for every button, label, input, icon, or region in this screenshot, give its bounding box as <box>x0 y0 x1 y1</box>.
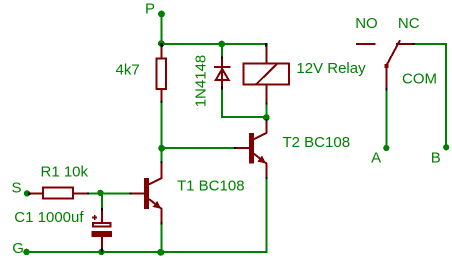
svg-text:G: G <box>12 240 24 257</box>
svg-text:B: B <box>431 150 441 167</box>
svg-text:A: A <box>371 150 381 167</box>
svg-text:1N4148: 1N4148 <box>193 55 210 108</box>
svg-text:R1 10k: R1 10k <box>41 163 89 180</box>
svg-text:12V Relay: 12V Relay <box>296 60 366 77</box>
svg-text:T2 BC108: T2 BC108 <box>283 134 351 151</box>
svg-text:P: P <box>145 1 155 18</box>
svg-text:S: S <box>12 180 22 197</box>
svg-text:COM: COM <box>402 71 437 88</box>
svg-text:T1 BC108: T1 BC108 <box>177 178 245 195</box>
svg-text:4k7: 4k7 <box>116 61 140 78</box>
svg-text:NO: NO <box>355 15 378 32</box>
svg-text:NC: NC <box>398 15 420 32</box>
svg-text:C1 1000uf: C1 1000uf <box>14 209 84 226</box>
